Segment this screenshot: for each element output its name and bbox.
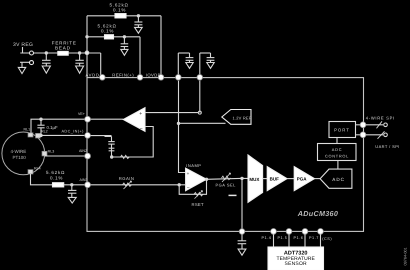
wire left riser <box>86 16 88 78</box>
svg-text:ADC: ADC <box>332 147 343 152</box>
wire BUF-PGA <box>287 178 294 180</box>
svg-text:ADuCM360: ADuCM360 <box>297 209 338 218</box>
block ADC CONTROL <box>318 144 357 161</box>
decoupling cap C5 on pin T4 <box>178 53 193 75</box>
RTD terminal RL3 <box>42 150 54 156</box>
pin L4 <box>85 182 91 188</box>
svg-text:INAMP: INAMP <box>186 163 201 168</box>
terminal ring GNDIN <box>30 61 34 65</box>
wire U1 plus input <box>145 112 200 114</box>
ground gnd4 <box>135 27 143 33</box>
svg-text:−: − <box>187 185 190 191</box>
terminal spi 2 <box>384 133 388 137</box>
feedback loop U2 <box>178 183 181 186</box>
wire U1 minus feedback <box>112 127 154 158</box>
svg-text:SENSOR: SENSOR <box>285 261 308 267</box>
wire pin L4 to U2 minus <box>91 184 186 186</box>
part name ADuCM360 <box>297 209 338 218</box>
svg-text:PT100: PT100 <box>13 155 27 160</box>
node rail-c3 <box>78 51 81 54</box>
node fb <box>110 155 113 158</box>
terminal stub GND <box>20 61 30 63</box>
RTD terminal RL2 <box>36 133 41 138</box>
terminal ring VIN <box>30 51 34 55</box>
pin B2 <box>286 229 292 235</box>
ferrite bead FB1 <box>58 51 68 55</box>
svg-text:RSET: RSET <box>192 202 205 207</box>
wire PGA-ADC <box>315 178 321 180</box>
ground gnd1 <box>18 62 25 73</box>
pin T1 <box>100 75 106 81</box>
wire to reference flag <box>179 122 226 124</box>
pin labels left edge <box>62 112 88 182</box>
wire control to port <box>336 138 338 144</box>
wire C9 to pin L2 <box>91 135 112 138</box>
node loop-R2 <box>85 35 88 38</box>
svg-text:PGA SEL: PGA SEL <box>216 183 237 188</box>
node mux drop <box>240 177 243 180</box>
node rail-c2 <box>45 51 48 54</box>
RTD sensor circle <box>2 132 45 175</box>
pin B4 <box>318 229 324 235</box>
resistor R4 in feedback <box>120 155 129 158</box>
svg-text:REFIN(+): REFIN(+) <box>112 72 134 77</box>
wire R1 down to pin <box>160 16 162 76</box>
capacitor C4 <box>134 16 142 27</box>
wire RTD t1 to pin L1 <box>31 119 85 133</box>
ADC block <box>320 169 352 188</box>
node vbias tap <box>177 122 180 125</box>
svg-text:UART / SPI: UART / SPI <box>375 144 400 149</box>
svg-text:PGA: PGA <box>297 177 308 182</box>
wire spi out 2 <box>366 134 383 136</box>
svg-text:4-WIRE SPI: 4-WIRE SPI <box>366 115 395 120</box>
resistor R1 top <box>87 15 161 17</box>
node R1-C4 <box>137 14 140 17</box>
wire supply tick <box>22 47 24 53</box>
svg-text:1.2V REF: 1.2V REF <box>233 115 252 120</box>
wire R3 to pin L4 <box>64 184 85 186</box>
svg-text:ADC_IN(+): ADC_IN(+) <box>62 130 85 134</box>
svg-text:RL3: RL3 <box>48 150 55 154</box>
svg-text:0.1%: 0.1% <box>101 28 114 33</box>
pin T3 <box>158 75 164 81</box>
svg-text:0.1%: 0.1% <box>113 7 126 12</box>
pin L1 <box>85 116 91 122</box>
svg-text:09764-001: 09764-001 <box>403 247 407 265</box>
wire pin T4 down to vbias <box>179 81 186 173</box>
pin T4 <box>176 75 182 81</box>
node AGND bottom <box>239 229 245 235</box>
svg-text:ADC: ADC <box>332 177 345 182</box>
wire RTD t3 to pin L3 <box>45 155 85 157</box>
RTD terminal RL4 <box>28 170 33 174</box>
svg-text:3V REG: 3V REG <box>13 42 33 48</box>
wire pin T5 down <box>199 81 201 113</box>
svg-text:P1.4: P1.4 <box>262 236 272 240</box>
ground gnd2 <box>42 66 50 73</box>
wire AVDD drop <box>100 53 102 75</box>
svg-text:BEAD: BEAD <box>55 45 71 50</box>
svg-text:4-WIRE: 4-WIRE <box>11 149 27 154</box>
capacitor C4b <box>121 37 129 50</box>
node U1p <box>198 111 201 114</box>
capacitor C10 <box>238 234 247 249</box>
MUX <box>248 155 263 202</box>
svg-text:RL1: RL1 <box>24 128 31 132</box>
pin labels top edge <box>86 72 162 77</box>
ground gnd3 <box>76 66 84 73</box>
svg-text:P1.6: P1.6 <box>294 236 304 240</box>
pin R1c <box>360 122 366 128</box>
svg-text:RL2: RL2 <box>41 130 48 134</box>
resistor R6 variable in signal path <box>222 176 231 179</box>
supply label 3V REG <box>13 42 33 48</box>
bottom pin labels <box>262 236 333 241</box>
ADT7320 temperature sensor box <box>268 247 324 270</box>
svg-text:CONTROL: CONTROL <box>325 154 349 159</box>
ground gnd4b <box>121 49 128 55</box>
RTD terminal RL1 <box>28 133 33 137</box>
svg-text:PORT: PORT <box>334 127 350 132</box>
capacitor C8 <box>70 183 73 186</box>
svg-text:0.1%: 0.1% <box>50 175 63 180</box>
slash marks <box>377 121 385 139</box>
svg-text:AIN2: AIN2 <box>79 149 87 153</box>
PGA <box>294 167 314 191</box>
svg-text:VE+: VE+ <box>78 112 85 116</box>
wire MUX-BUF <box>263 178 268 180</box>
pin L3 <box>85 153 91 159</box>
wire down to AGND node <box>241 178 243 231</box>
node rail-loop <box>85 51 89 55</box>
svg-text:AVDD: AVDD <box>86 72 100 77</box>
op-amp U1 output wire <box>91 118 124 120</box>
svg-text:0.1µF: 0.1µF <box>47 125 58 130</box>
svg-text:RL4: RL4 <box>34 167 41 171</box>
capacitor C2 <box>42 53 51 66</box>
decoupling cap C6 on pin T5 <box>200 53 215 75</box>
capacitor C7 0.1uF between sense lines <box>39 118 42 121</box>
svg-text:(CS): (CS) <box>322 237 332 241</box>
svg-text:+: + <box>187 171 190 176</box>
pin R2c <box>360 132 366 138</box>
ground gnd5 <box>186 63 193 69</box>
wire spi out 1 <box>366 124 383 126</box>
wire RTD t2 to pin L2 <box>40 134 84 136</box>
BUF <box>267 167 287 191</box>
svg-text:P1.7: P1.7 <box>309 236 319 240</box>
wire R2 down to pin <box>139 37 141 76</box>
resistor R5 in U2 feedback <box>194 193 203 196</box>
wire U2 out to MUX <box>207 177 249 180</box>
svg-text:AIN3: AIN3 <box>80 178 88 182</box>
wires to ADT7320 <box>274 234 321 247</box>
capacitor C3 <box>75 53 83 66</box>
pin B3 <box>302 229 308 235</box>
ground gnd7 <box>68 197 76 203</box>
reference flag 1.2V <box>222 110 251 125</box>
pin L2 <box>85 133 91 139</box>
resistor RG in line <box>123 183 132 186</box>
ground gnd8 <box>238 249 246 255</box>
resistor R2 <box>87 36 140 38</box>
op-amp U1 <box>123 108 145 132</box>
svg-text:5.62kΩ: 5.62kΩ <box>46 170 65 175</box>
resistor R3 RREF <box>53 183 64 187</box>
svg-text:BUF: BUF <box>270 177 279 182</box>
wire RTD t4 down <box>31 174 53 185</box>
pin B1 <box>271 229 277 235</box>
pin T2 <box>137 75 143 81</box>
wire port to pins <box>356 124 362 126</box>
svg-text:MUX: MUX <box>249 177 259 182</box>
ground gnd6 <box>207 63 214 69</box>
svg-text:−: − <box>140 126 143 132</box>
op-amp U2 <box>186 168 207 191</box>
svg-text:P1.5: P1.5 <box>278 236 288 240</box>
terminal spi 1 <box>384 123 388 127</box>
pin T5 <box>197 75 203 81</box>
capacitor C9 feedback <box>108 136 114 157</box>
dash mark <box>229 194 237 196</box>
label to micro <box>366 115 400 149</box>
main IC box ADuCM360 <box>87 78 364 232</box>
wire ADC to control <box>337 161 339 170</box>
node R2-C4b <box>123 35 126 38</box>
wire 3V rail <box>20 52 100 54</box>
block PORT <box>329 122 356 138</box>
figure number <box>403 247 407 265</box>
svg-text:RGAIN: RGAIN <box>119 176 135 181</box>
op-amp U2 label <box>186 163 201 168</box>
svg-text:+: + <box>139 111 142 117</box>
